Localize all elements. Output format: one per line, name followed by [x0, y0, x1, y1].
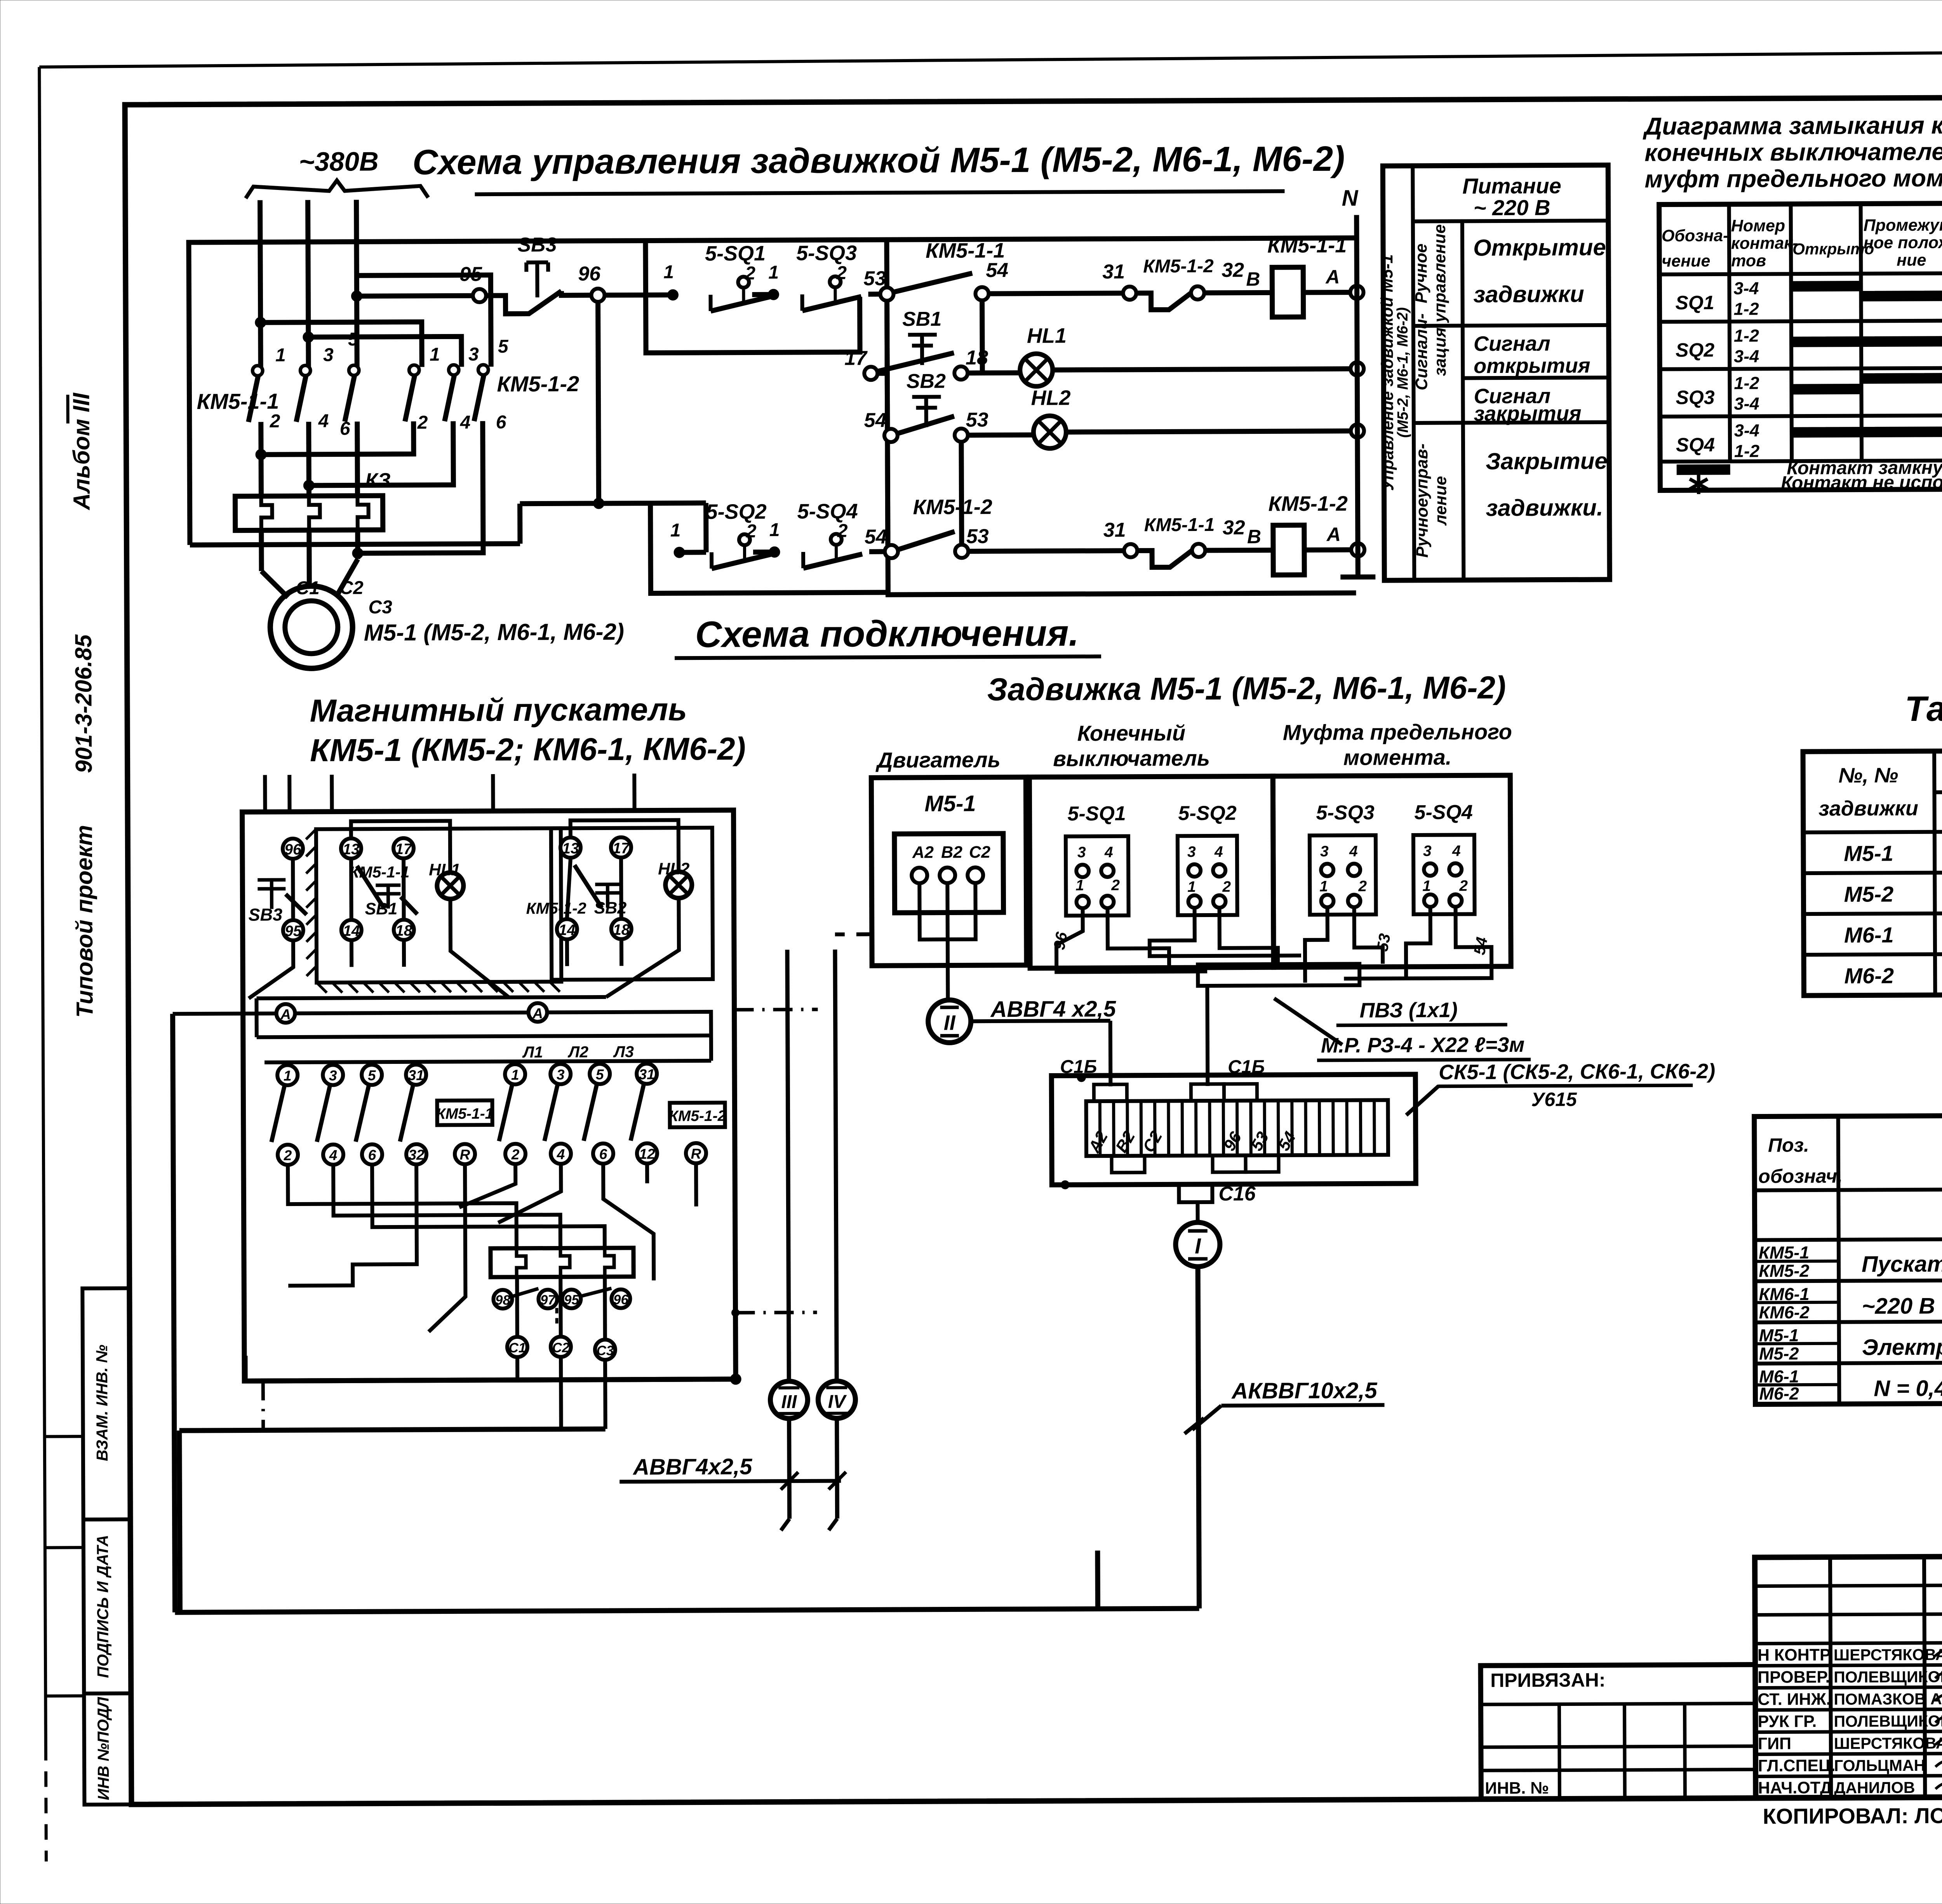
starter enclosure box: [242, 810, 736, 1381]
reversing jumper wires between contact groups: [255, 275, 492, 559]
vertical 54(row1)-18 link: [980, 300, 985, 371]
svg-text:контак-: контак-: [1731, 234, 1798, 253]
svg-text:Двигатель: Двигатель: [875, 747, 1001, 772]
svg-text:2: 2: [836, 263, 847, 284]
wire phase L1: [260, 200, 261, 367]
svg-text:II: II: [944, 1011, 956, 1034]
svg-text:2: 2: [746, 521, 757, 541]
terminal block tab C16 bottom: [1179, 1183, 1256, 1223]
terminal block cells: [1086, 1100, 1388, 1156]
svg-text:КМ5-1: КМ5-1: [1759, 1243, 1809, 1262]
limit switch contact 5-SQ2: [706, 500, 771, 569]
terminal 96: [578, 263, 604, 302]
svg-text:1: 1: [663, 262, 674, 282]
svg-text:1: 1: [1422, 878, 1431, 895]
svg-text:53: 53: [863, 267, 886, 290]
svg-text:ное положе-: ное положе-: [1864, 233, 1942, 252]
label Конечный выключатель: [1053, 721, 1210, 771]
svg-text:1-2: 1-2: [1734, 373, 1759, 393]
svg-text:АВВГ4х2,5: АВВГ4х2,5: [632, 1454, 752, 1479]
label АВВГ4х2,5 cable II: [971, 996, 1116, 1087]
pushbutton SB3 (NC stop): [486, 233, 592, 314]
contactor KM5-1-2 main contacts: [405, 336, 579, 433]
svg-text:Номер: Номер: [1731, 216, 1785, 235]
svg-text:1: 1: [768, 262, 779, 283]
bypass wire around SQ1 SQ3: [646, 240, 860, 353]
svg-text:1: 1: [1075, 877, 1084, 894]
torque switch unit 5-SQ4: [1413, 801, 1475, 914]
components table row M5-1 M5-2: [1759, 1324, 1942, 1364]
svg-text:3: 3: [323, 345, 334, 365]
svg-text:R: R: [691, 1146, 701, 1162]
svg-text:открытия: открытия: [1474, 354, 1590, 378]
svg-text:3: 3: [329, 1068, 337, 1084]
svg-text:SВ1: SВ1: [365, 900, 397, 918]
application table headers: [1818, 761, 1942, 828]
svg-text:5: 5: [596, 1067, 604, 1083]
svg-text:Ручное: Ручное: [1412, 244, 1431, 303]
NC auxiliary contact KM5-1-2 row1: [1136, 256, 1214, 310]
svg-text:А: А: [532, 1006, 543, 1022]
lower SQ box outline: [651, 502, 888, 593]
contact diagram row SQ4: [1676, 416, 1942, 461]
svg-text:С2: С2: [339, 578, 364, 598]
svg-text:HL2: HL2: [658, 860, 690, 878]
svg-text:момента.: момента.: [1343, 745, 1452, 770]
wire stubs blades to thermal relay: [261, 421, 358, 496]
cable III circle: [769, 950, 808, 1418]
svg-text:М6-1: М6-1: [1844, 922, 1894, 947]
svg-text:КМ5-1-2: КМ5-1-2: [669, 1108, 726, 1125]
svg-text:2: 2: [1459, 877, 1468, 894]
svg-text:обознач.: обознач.: [1758, 1165, 1843, 1187]
terminal 31 row1: [1102, 261, 1136, 300]
starter motor lead terminals C1 C2 C3: [507, 1277, 615, 1360]
starter terminal 14 left: [341, 920, 362, 940]
svg-text:18: 18: [395, 922, 412, 939]
svg-text:~380В: ~380В: [299, 146, 379, 177]
svg-text:ИНВ. №: ИНВ. №: [1485, 1779, 1549, 1798]
starter button SB2: [594, 884, 626, 917]
starter lamp HL1: [429, 860, 463, 899]
wire row3 to lamp HL2: [968, 432, 1034, 438]
svg-text:3: 3: [1423, 843, 1432, 860]
svg-text:17: 17: [613, 840, 630, 857]
label Муфта предельного момента: [1283, 719, 1512, 770]
svg-text:С1: С1: [508, 1340, 526, 1356]
application table rows: [1844, 839, 1942, 988]
svg-text:3-4: 3-4: [1733, 278, 1759, 298]
svg-text:РУК ГР.: РУК ГР.: [1758, 1712, 1817, 1731]
svg-text:31: 31: [639, 1066, 655, 1082]
svg-text:С1: С1: [296, 578, 320, 599]
NC auxiliary contact KM5-1-1 row4: [1137, 515, 1215, 567]
title block signatures squiggles: [1935, 1645, 1942, 1789]
torque switch contact 5-SQ4: [797, 499, 862, 568]
svg-text:17: 17: [844, 347, 868, 369]
svg-text:R: R: [460, 1147, 470, 1163]
svg-text:N: N: [1342, 185, 1358, 211]
svg-text:КМ5-1-2: КМ5-1-2: [1143, 256, 1214, 277]
starter terminal 95: [283, 920, 303, 940]
svg-text:2: 2: [1111, 877, 1120, 894]
contact diagram row SQ1: [1675, 277, 1942, 319]
label ~380В with bracket: [245, 146, 428, 198]
signal lamp HL2: [1031, 386, 1071, 448]
svg-text:КМ5-2: КМ5-2: [1759, 1261, 1809, 1281]
terminal 53 row1: [863, 267, 893, 301]
svg-text:HL2: HL2: [1031, 386, 1070, 409]
valve limit switch box: [1029, 776, 1274, 968]
wire row1 SQ1 to SQ3: [752, 262, 779, 300]
svg-text:5-SQ4: 5-SQ4: [1414, 801, 1473, 824]
svg-text:98: 98: [495, 1293, 511, 1308]
svg-text:КМ5-1-1: КМ5-1-1: [349, 863, 409, 881]
svg-text:задвижки.: задвижки.: [1486, 494, 1603, 521]
svg-text:2: 2: [511, 1147, 520, 1163]
svg-text:Схема подключения.: Схема подключения.: [695, 613, 1079, 655]
starter button SB1: [365, 885, 417, 919]
svg-text:5-SQ4: 5-SQ4: [797, 499, 858, 523]
purpose table rotated label Ручное управление: [1412, 224, 1450, 323]
svg-text:53: 53: [1373, 932, 1394, 953]
purpose table rotated label Управление задвижкой М5-1: [1378, 254, 1411, 491]
svg-text:А: А: [1326, 524, 1341, 545]
svg-text:5-SQ3: 5-SQ3: [796, 241, 857, 265]
svg-text:SВ1: SВ1: [902, 308, 941, 331]
svg-text:5-SQ2: 5-SQ2: [706, 500, 766, 524]
svg-text:ШЕРСТЯКОВА: ШЕРСТЯКОВА: [1834, 1646, 1942, 1664]
terminal block cell labels: [1085, 1127, 1300, 1156]
contact diagram row SQ2: [1676, 325, 1942, 367]
svg-text:ление: ление: [1431, 476, 1450, 526]
wires to motor terminals: [261, 530, 358, 597]
svg-text:3-4: 3-4: [1734, 421, 1759, 440]
svg-text:КМ5-1-1: КМ5-1-1: [1267, 234, 1347, 258]
svg-text:1-2: 1-2: [1734, 441, 1759, 461]
svg-text:М5-1: М5-1: [1759, 1325, 1799, 1345]
starter contact KM5-1-1 aux: [349, 863, 410, 909]
svg-text:31: 31: [1102, 261, 1125, 283]
svg-text:Открыто: Открыто: [1792, 240, 1874, 258]
starter bottom bus wires: [179, 1354, 742, 1613]
terminal 54 row3: [864, 409, 898, 442]
svg-text:Контакт не используется: Контакт не используется: [1781, 472, 1942, 493]
starter contact blades: [271, 1085, 644, 1142]
svg-text:2: 2: [284, 1147, 292, 1163]
svg-text:М5-2: М5-2: [1759, 1344, 1799, 1363]
svg-text:КМ5-1-2: КМ5-1-2: [497, 371, 579, 396]
svg-text:ПРОВЕР.: ПРОВЕР.: [1758, 1668, 1830, 1687]
svg-text:6: 6: [368, 1147, 376, 1163]
control box bottom edge: [190, 503, 706, 554]
svg-text:С3: С3: [368, 597, 392, 618]
svg-text:чение: чение: [1662, 252, 1710, 270]
svg-text:2: 2: [1222, 879, 1231, 895]
terminal 32 row1: [1191, 259, 1260, 299]
starter internal wiring upper: [248, 820, 679, 998]
terminal block SK5-1 outer box: [1051, 1074, 1416, 1185]
svg-text:2: 2: [837, 521, 848, 541]
svg-text:Сигнал: Сигнал: [1474, 332, 1550, 356]
svg-text:В: В: [1246, 268, 1260, 290]
terminal 32 row4: [1192, 516, 1262, 557]
left margin rotated label Альбом III: [68, 392, 94, 511]
svg-text:НАЧ.ОТД: НАЧ.ОТД: [1758, 1779, 1832, 1798]
vertical 53-17-54 link: [871, 301, 891, 545]
contact diagram headers: [1662, 216, 1942, 271]
svg-text:Л2: Л2: [567, 1043, 588, 1061]
svg-text:Сигнали-: Сигнали-: [1412, 313, 1431, 390]
wire row1 96 to SQ1: [604, 262, 678, 301]
svg-text:HL1: HL1: [429, 860, 460, 879]
starter terminal 17 right: [611, 837, 631, 858]
wire 96 down to lower branch: [593, 302, 604, 509]
contactor auxiliary contact KM5-1-1 row1: [893, 239, 1005, 292]
svg-text:1: 1: [275, 345, 286, 365]
cable III IV tails: [781, 1418, 837, 1531]
wire phase L2: [308, 200, 309, 367]
wire row1 SQ3 to terminal 53: [868, 292, 887, 297]
row3 connection node on N: [1351, 424, 1364, 437]
svg-text:Пускатель магнитный ПМЛ-16310: Пускатель магнитный ПМЛ-163102: [1862, 1250, 1942, 1277]
starter internal bus wires: [172, 997, 711, 1063]
svg-text:Л3: Л3: [613, 1043, 634, 1061]
starter button SB3: [248, 880, 306, 925]
leader СК5-1 (СК5-2, СК6-1, СК6-2) У615: [1406, 1060, 1715, 1115]
title Схема управления задвижкой М5-1 (М5-2, М6-1, М6-2): [412, 139, 1345, 195]
contact diagram row SQ3: [1676, 372, 1942, 414]
svg-text:№, №: №, №: [1838, 764, 1898, 787]
pushbutton SB1 (NO): [877, 308, 954, 371]
title block signature labels: [1758, 1645, 1942, 1798]
svg-text:SВ2: SВ2: [907, 370, 946, 393]
wire row3 HL2 to N: [1066, 431, 1351, 432]
svg-text:SQ2: SQ2: [1676, 339, 1714, 361]
svg-text:задвижки: задвижки: [1473, 281, 1584, 307]
svg-text:С2: С2: [969, 843, 990, 861]
svg-text:SQ4: SQ4: [1676, 434, 1715, 456]
svg-text:В: В: [1247, 526, 1261, 547]
svg-text:1: 1: [430, 345, 440, 365]
svg-text:СК5-1 (СК5-2, СК6-1, СК6-2): СК5-1 (СК5-2, СК6-1, СК6-2): [1439, 1060, 1715, 1084]
svg-text:2: 2: [417, 412, 428, 433]
switch interconnection wires: [1050, 907, 1492, 1086]
terminal block tabs: [1060, 1072, 1279, 1189]
svg-text:1: 1: [284, 1068, 292, 1084]
contact diagram legend: [1677, 457, 1942, 494]
svg-text:М5-1 (М5-2, М6-1, М6-2): М5-1 (М5-2, М6-1, М6-2): [364, 619, 624, 646]
limit switch unit 5-SQ1: [1066, 802, 1129, 916]
svg-text:5-SQ3: 5-SQ3: [1316, 801, 1375, 824]
svg-text:3-4: 3-4: [1734, 394, 1759, 414]
torque switch unit 5-SQ3: [1310, 801, 1376, 915]
svg-text:3-4: 3-4: [1734, 346, 1759, 366]
contact diagram title: [1643, 111, 1942, 193]
svg-text:А: А: [280, 1006, 291, 1022]
svg-text:4: 4: [329, 1147, 338, 1163]
svg-text:зация: зация: [1431, 327, 1450, 376]
svg-text:Задвижка М5-1 (М5-2, М6-1, М6-: Задвижка М5-1 (М5-2, М6-1, М6-2): [987, 670, 1506, 707]
svg-text:ГИП: ГИП: [1758, 1734, 1791, 1753]
svg-text:12: 12: [639, 1146, 655, 1162]
svg-text:53: 53: [966, 525, 989, 548]
wire row4 left segment: [670, 520, 706, 558]
control box outline: [189, 238, 1358, 545]
label АКВВГ10х2,5: [1184, 1378, 1385, 1434]
starter lamp HL2: [658, 860, 692, 898]
svg-text:муфт предельного момента SQ3,: муфт предельного момента SQ3, SQ4: [1644, 164, 1942, 193]
svg-text:КМ5-1-1: КМ5-1-1: [436, 1105, 494, 1123]
svg-text:С3: С3: [596, 1343, 614, 1358]
svg-text:1: 1: [769, 520, 780, 540]
starter lower wiring: [288, 1163, 697, 1332]
svg-text:Магнитный пускатель: Магнитный пускатель: [310, 692, 687, 729]
svg-text:1: 1: [1319, 878, 1328, 895]
left margin stamp column boxes: [44, 1288, 131, 1805]
wire row2 to lamp HL1: [968, 370, 1021, 376]
svg-text:КМ6-1: КМ6-1: [1759, 1284, 1809, 1304]
svg-text:4: 4: [557, 1146, 565, 1162]
row4 connection node on N: [1351, 543, 1364, 556]
limit switch unit 5-SQ2: [1178, 802, 1237, 915]
starter A terminal circle right: [528, 1003, 547, 1022]
svg-text:53: 53: [966, 409, 988, 431]
svg-text:I: I: [1195, 1234, 1201, 1258]
terminal 18: [954, 346, 988, 379]
svg-text:(М5-2, М6-1, М6-2): (М5-2, М6-1, М6-2): [1394, 307, 1411, 438]
application table frame: [1803, 749, 1942, 996]
components table headers: [1758, 1131, 1942, 1187]
svg-text:КМ5-1-2: КМ5-1-2: [913, 495, 992, 519]
svg-text:54: 54: [986, 259, 1008, 282]
svg-text:14: 14: [559, 922, 576, 938]
svg-text:С16: С16: [1218, 1183, 1256, 1205]
svg-text:КМ5-1-1: КМ5-1-1: [1144, 515, 1215, 536]
svg-text:54: 54: [864, 409, 887, 432]
svg-text:ИНВ №ПОДЛ: ИНВ №ПОДЛ: [94, 1697, 112, 1800]
svg-text:М6-2: М6-2: [1759, 1384, 1799, 1403]
title block outline: [1755, 1554, 1942, 1798]
legend star: [1690, 474, 1707, 494]
svg-text:IV: IV: [828, 1392, 847, 1412]
wire N vertical: [1339, 185, 1375, 577]
svg-text:96: 96: [1050, 930, 1071, 951]
cable I wire down: [1198, 1267, 1199, 1608]
enclosure dash-dot boundary segments: [262, 1009, 820, 1430]
svg-text:закрытия: закрытия: [1474, 402, 1582, 425]
starter terminal 14 right: [557, 919, 577, 939]
svg-text:Типовой проект: Типовой проект: [71, 825, 98, 1018]
svg-text:управление: управление: [1430, 224, 1450, 323]
svg-text:М.Р. РЗ-4 - Х22 ℓ=3м: М.Р. РЗ-4 - Х22 ℓ=3м: [1321, 1033, 1525, 1057]
svg-text:Электродвигатель ВАОА-071-4: Электродвигатель ВАОА-071-4: [1862, 1333, 1942, 1360]
svg-text:3: 3: [468, 344, 479, 365]
svg-text:4: 4: [1214, 844, 1223, 860]
svg-text:КМ5-1 (КМ5-2; КМ6-1, КМ6-2): КМ5-1 (КМ5-2; КМ6-1, КМ6-2): [310, 731, 746, 768]
contact diagram table frame: [1659, 203, 1942, 491]
wire row2 HL1 to N: [1053, 369, 1350, 370]
svg-text:95: 95: [285, 923, 302, 940]
title Схема подключения: [675, 613, 1101, 658]
svg-text:5: 5: [368, 1067, 376, 1083]
starter terminal 18 left: [394, 920, 414, 940]
terminal 53 row4: [955, 525, 989, 558]
svg-text:III: III: [781, 1392, 797, 1412]
contactor auxiliary contact KM5-1-2 row4: [898, 495, 992, 550]
stub wire near terminal strip: [1095, 1551, 1100, 1609]
svg-text:54: 54: [1470, 936, 1491, 956]
svg-text:5-SQ1: 5-SQ1: [1067, 802, 1126, 825]
components table row KM6-1 KM6-2: [1759, 1282, 1942, 1323]
svg-text:13: 13: [562, 840, 579, 857]
starter terminal 13 left: [341, 838, 361, 858]
cable II circle: [928, 1000, 971, 1043]
svg-text:ПОДПИСЬ И ДАТА: ПОДПИСЬ И ДАТА: [94, 1535, 112, 1678]
svg-text:1-2: 1-2: [1734, 299, 1759, 319]
svg-text:тов: тов: [1731, 251, 1766, 270]
svg-text:6: 6: [496, 412, 506, 433]
starter terminal 17 left: [393, 838, 414, 858]
starter terminal 96 top: [283, 839, 303, 859]
svg-text:6: 6: [599, 1146, 607, 1162]
purpose table cell Сигнал открытия: [1474, 332, 1590, 378]
svg-text:4: 4: [1349, 843, 1358, 860]
svg-text:КМ6-2: КМ6-2: [1759, 1302, 1809, 1322]
svg-text:ДАНИЛОВ: ДАНИЛОВ: [1834, 1779, 1915, 1797]
label АВВГ4х2,5 bottom: [619, 1454, 846, 1490]
svg-text:2: 2: [270, 411, 280, 432]
terminal 17: [844, 347, 877, 380]
inner box around control relay rows: [887, 238, 1356, 595]
svg-text:~ 220 В: ~ 220 В: [1474, 195, 1550, 220]
svg-text:КМ5-1-1: КМ5-1-1: [197, 389, 279, 414]
svg-text:N = 0,4 кВт.: N = 0,4 кВт.: [1874, 1375, 1942, 1401]
svg-text:5-SQ1: 5-SQ1: [705, 242, 766, 265]
svg-text:95: 95: [459, 263, 482, 285]
svg-text:ПОЛЕВЩИКОВА: ПОЛЕВЩИКОВА: [1834, 1668, 1942, 1686]
svg-text:М5-1: М5-1: [924, 791, 976, 816]
starter terminal 18 right: [611, 919, 632, 939]
starter terminal 13 right: [560, 837, 581, 858]
svg-text:ПВЗ (1х1): ПВЗ (1х1): [1359, 999, 1457, 1022]
bottom cable bus wire: [173, 1010, 1199, 1612]
svg-text:31: 31: [408, 1067, 424, 1083]
terminal 54 row4: [865, 526, 898, 558]
purpose table rotated label Ручное управление низ: [1413, 444, 1450, 558]
svg-text:Л1: Л1: [522, 1043, 543, 1061]
svg-text:32: 32: [408, 1147, 425, 1163]
svg-text:~220 В ТУ16-526, 437-78: ~220 В ТУ16-526, 437-78: [1862, 1293, 1942, 1319]
signal lamp HL1: [1020, 324, 1067, 386]
svg-text:1-2: 1-2: [1734, 326, 1759, 346]
svg-text:А2: А2: [912, 843, 934, 862]
svg-text:В2: В2: [941, 843, 962, 861]
svg-text:17: 17: [395, 841, 413, 858]
svg-text:Питание: Питание: [1462, 173, 1561, 198]
starter inner hatched panel: [306, 828, 562, 993]
svg-text:ПОМАЗКОВ А: ПОМАЗКОВ А: [1834, 1690, 1942, 1708]
svg-text:Схема управления задвижкой М5-: Схема управления задвижкой М5-1 (М5-2, М…: [412, 139, 1345, 182]
svg-text:13: 13: [343, 841, 360, 858]
svg-text:М5-2: М5-2: [1844, 882, 1894, 906]
pushbutton SB2 (NO): [897, 370, 954, 433]
terminal 54 row1: [975, 259, 1008, 300]
starter A terminal circle left: [276, 1004, 295, 1023]
svg-text:3: 3: [1320, 843, 1329, 860]
purpose table rotated label Сигнализация: [1412, 313, 1450, 390]
svg-text:Муфта предельного: Муфта предельного: [1283, 719, 1512, 745]
